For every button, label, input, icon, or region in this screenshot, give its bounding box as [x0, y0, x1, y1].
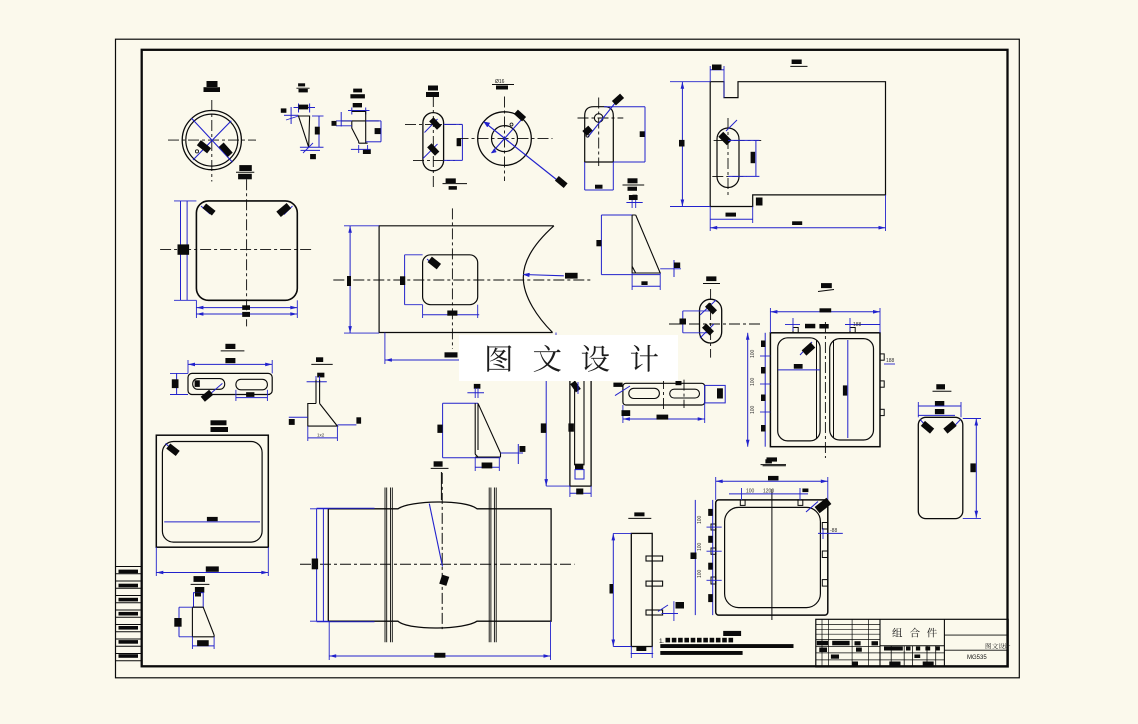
left margin grid strip: [116, 566, 142, 568]
view W center axis: [771, 489, 773, 620]
view E blue diagonal short: [492, 116, 525, 153]
view S corner leader: [166, 444, 175, 452]
view R left corner blob: [622, 410, 631, 416]
view S outline outer: [156, 435, 268, 547]
view J top dim: [626, 202, 642, 204]
view I centerlines: [451, 208, 453, 349]
view K bracket blob: [680, 319, 687, 325]
view H left dim: [180, 201, 182, 300]
view V bottom dim: [630, 647, 632, 659]
view K top label: [706, 276, 716, 281]
view V top label: [634, 512, 644, 516]
view T bottom dim: [191, 637, 193, 649]
view B top dim: [294, 107, 316, 109]
view R right blue box: [705, 385, 726, 403]
view N top label: [225, 344, 235, 349]
title block right small text: [986, 643, 991, 649]
view P top dim: [474, 384, 481, 389]
svg-text:100: 100: [697, 542, 703, 551]
view L bottom label: [765, 459, 772, 463]
view L top tabs: [793, 328, 798, 333]
view V bottom blob: [636, 647, 646, 652]
view L outline: [770, 333, 880, 447]
view U seam lines left: [384, 488, 386, 643]
notes thick bar 1: [660, 644, 793, 648]
view B wedge outline: [299, 116, 310, 147]
view L right slot: [830, 339, 874, 440]
svg-text:100: 100: [750, 349, 756, 358]
view U seam lines right: [488, 488, 490, 643]
view C top labels: [353, 89, 362, 93]
view P bottom-left label: [434, 461, 443, 466]
view L right slot dim: [847, 340, 849, 438]
view T outline: [192, 607, 214, 637]
view L left slot: [778, 338, 820, 441]
view E blue diagonal long: [484, 122, 562, 184]
view V left dim: [612, 533, 614, 646]
view Q inner blob: [575, 464, 583, 470]
view N top dim: [187, 360, 189, 373]
view N left slot: [193, 379, 225, 390]
view M top label: [936, 384, 945, 389]
view K left dim: [682, 311, 684, 333]
title block middle bars: [884, 647, 903, 651]
view G bottom dim 1: [709, 207, 711, 224]
view K obround outline: [700, 299, 722, 343]
view G top center label: [792, 60, 802, 65]
view N outline: [188, 373, 272, 394]
title block middle grid: [880, 645, 944, 647]
view R bottom dim: [622, 405, 624, 423]
view P bottom dim: [474, 457, 476, 471]
view J right dim: [660, 268, 681, 270]
view I inner corner leader: [427, 259, 436, 267]
svg-text:100: 100: [697, 569, 703, 578]
view W top label: [767, 457, 778, 461]
view N slot leader: [205, 383, 223, 398]
view W inner frame: [725, 507, 821, 607]
view C left dim: [340, 112, 342, 127]
view S outline inner: [162, 442, 262, 543]
view M top dims: [917, 402, 919, 417]
view K leaders: [700, 300, 716, 315]
view F right dim box: [604, 106, 645, 108]
view U bottom-left blue edge: [317, 621, 375, 623]
outer border frame: [116, 39, 1020, 678]
view H corner leaders: [201, 206, 210, 214]
title block left grid: [816, 624, 880, 626]
view R left slot: [629, 388, 660, 398]
view U leader: [429, 504, 442, 567]
view A blue diagonals: [192, 118, 233, 162]
title block right rows: [944, 634, 1008, 636]
view U top-left blue edge: [317, 507, 375, 509]
view S bottom dim: [155, 547, 157, 576]
view L right slot inner line: [833, 340, 835, 438]
view Q top leader: [570, 381, 581, 393]
view D obround outline: [423, 113, 444, 171]
view T labels: [194, 576, 206, 582]
view M right dim: [975, 419, 977, 518]
view O right dim: [337, 424, 356, 426]
view A top dimension text blob: [207, 81, 218, 87]
view S top labels: [211, 420, 227, 425]
view R right slot: [670, 389, 700, 398]
view D leader diagonals: [425, 119, 438, 133]
view N right slot dim: [235, 390, 237, 401]
watermark white box: [459, 335, 678, 381]
view N left slot blob: [195, 380, 200, 387]
view H bottom dims: [195, 300, 197, 318]
view G step blob: [756, 198, 763, 206]
view U bottom dim: [328, 621, 330, 660]
title block part name 组合件: [892, 628, 902, 637]
view I inner bottom dim: [422, 305, 424, 318]
view U outline: [328, 502, 551, 628]
view Q left dim: [545, 368, 547, 486]
view W corner leader: [806, 502, 818, 513]
view C outline: [341, 111, 379, 143]
view E outer circle: [478, 112, 532, 166]
view T left dim: [178, 607, 180, 637]
svg-text:-88: -88: [830, 528, 837, 534]
view E centerlines: [458, 138, 553, 140]
view L left slot inner line: [816, 340, 818, 439]
view F centerlines: [578, 117, 624, 119]
view L right leader: [884, 363, 895, 365]
view C right dim box: [366, 120, 381, 122]
view U left dims: [316, 509, 318, 621]
view A leader blobs: [197, 140, 211, 153]
view G top small dim: [710, 69, 724, 71]
svg-text:100: 100: [750, 377, 756, 386]
view L top label: [821, 283, 832, 288]
svg-text:1x2: 1x2: [317, 433, 325, 438]
view V lug leader: [658, 605, 668, 612]
view R outline: [623, 383, 705, 405]
view B top label: [298, 83, 305, 86]
view O top label: [316, 357, 323, 362]
view W right tabs: [822, 523, 828, 530]
view Q outline: [570, 368, 591, 486]
view J blue box: [600, 215, 602, 275]
view I outline: [379, 226, 554, 333]
svg-text:100: 100: [697, 515, 703, 524]
view F hole leader: [588, 100, 618, 138]
svg-text:1200: 1200: [763, 489, 774, 495]
view I left dim: [349, 226, 351, 333]
view J bottom dim: [631, 273, 633, 290]
view R top edge blob: [676, 381, 682, 385]
svg-text:MG535: MG535: [967, 655, 987, 661]
view D centerlines: [432, 96, 434, 187]
title block outer: [816, 619, 1008, 667]
view P blue box: [442, 403, 444, 457]
view N right slot: [236, 379, 268, 390]
view E inner circle: [492, 126, 518, 152]
view A centerlines: [168, 139, 256, 141]
svg-text:188: 188: [853, 322, 862, 328]
view W left tabs: [711, 524, 716, 530]
view U centerlines: [300, 563, 575, 565]
view L top dim: [769, 308, 771, 333]
view B right dim: [318, 116, 320, 147]
view A outer circle: [182, 111, 241, 170]
view F right stacked labels: [628, 178, 638, 183]
view G slot leader: [726, 120, 737, 131]
view H centerlines: [160, 249, 312, 251]
svg-text:100: 100: [746, 489, 755, 495]
view G outline: [710, 82, 885, 207]
view I arc leader: [523, 275, 564, 276]
title block verticals: [879, 619, 881, 667]
view W right small dim: [818, 532, 843, 534]
view W outline: [716, 500, 828, 615]
view G slot centerlines: [727, 118, 729, 198]
view L left slot inner dim: [778, 369, 820, 371]
view C top dim: [353, 103, 362, 107]
watermark text 图文设计: [487, 345, 511, 372]
view L center axis: [824, 322, 826, 458]
view T stem blue box: [194, 593, 204, 608]
notes thick bar 2: [660, 651, 742, 655]
view F bottom blue extension: [584, 162, 586, 190]
view G slot right dim: [728, 139, 759, 141]
view D bottom labels: [446, 178, 456, 183]
view V lugs: [646, 556, 663, 561]
view F outline: [585, 107, 614, 162]
view G bottom dim 2: [709, 223, 711, 231]
view M corner leaders: [920, 420, 929, 430]
view A inner circle: [186, 114, 238, 166]
svg-text:100: 100: [750, 405, 756, 414]
view R centerline: [663, 378, 665, 410]
view I bottom overall dim: [384, 333, 386, 365]
view E leader blobs: [514, 110, 526, 122]
view L left dims: [747, 333, 749, 447]
view Q inner lines: [575, 368, 584, 465]
view R leader arrow: [615, 386, 630, 396]
view G left dim: [681, 82, 683, 207]
view D right dim: [444, 123, 463, 125]
view I inner dim: [404, 255, 406, 305]
view I inner rounded square: [423, 255, 478, 305]
view A lower dimension text blobs: [239, 165, 252, 171]
view Q lower blue box: [575, 470, 584, 479]
view P right dim: [501, 452, 524, 454]
view G slot obround: [717, 128, 739, 188]
view D top label: [428, 86, 438, 91]
view W top dim 2: [729, 493, 808, 495]
view S inner bottom line: [164, 521, 260, 523]
view F hole: [594, 114, 603, 123]
view Q mid blob: [568, 423, 574, 431]
view L right tabs: [880, 354, 884, 360]
view M outline: [918, 417, 963, 518]
inner border frame: [142, 50, 1008, 667]
view C bottom dim: [351, 148, 371, 150]
view O outline: [308, 380, 338, 426]
view K centerlines: [669, 323, 760, 325]
view H outline: [196, 201, 297, 300]
svg-text:1.: 1.: [659, 638, 664, 645]
view B left dim: [281, 108, 287, 112]
view B top blob: [299, 105, 309, 110]
view V outline: [631, 533, 652, 646]
view W top dim 1: [715, 477, 717, 500]
view W top tabs: [740, 500, 745, 506]
view J outline: [632, 215, 660, 273]
svg-text:188: 188: [886, 358, 895, 364]
notes small bar: [723, 631, 741, 636]
view W left dims: [694, 500, 696, 615]
view O bottom dim: [307, 426, 309, 441]
view P axis below: [440, 472, 442, 500]
view Q bottom dim: [569, 486, 571, 497]
view O top dim: [317, 373, 324, 378]
view B bottom dims: [300, 146, 324, 148]
view N left dim: [176, 373, 178, 394]
view L top small ticks: [785, 324, 800, 326]
title block left bars: [817, 641, 829, 646]
view O left dim: [289, 416, 308, 418]
view P outline: [475, 403, 500, 457]
